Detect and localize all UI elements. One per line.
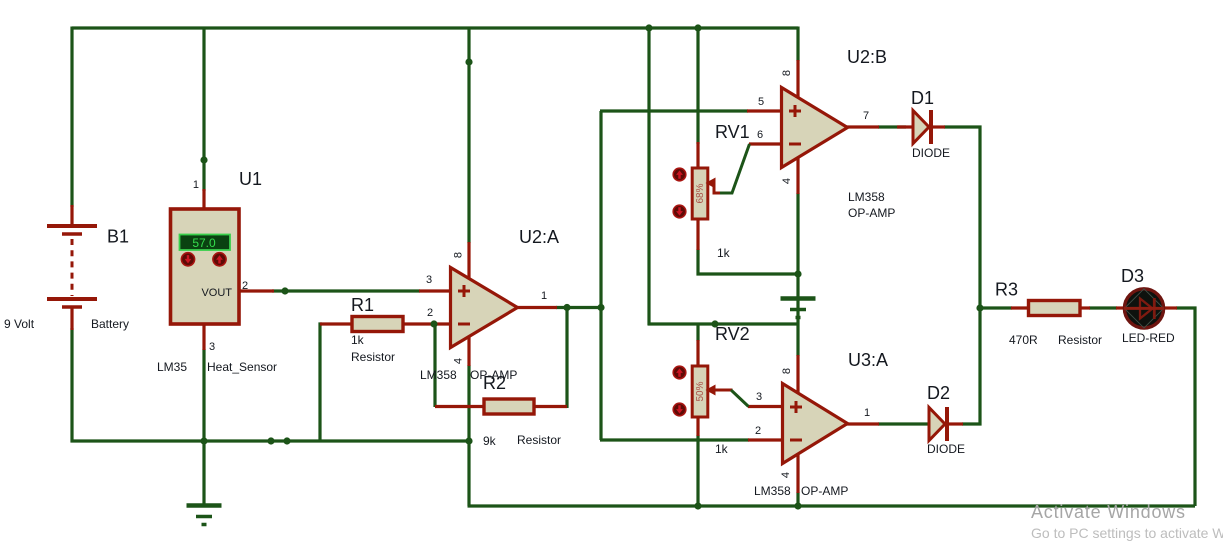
U1 button down — [181, 253, 194, 266]
R3 right lead — [1080, 306, 1090, 309]
wire RV1 top net — [696, 27, 699, 145]
svg-text:4: 4 — [453, 358, 465, 364]
wire R3 input net — [980, 306, 1012, 309]
junction node U2:A pin8 wire — [465, 58, 472, 65]
op-amp U2:A — [451, 268, 518, 348]
U3:A pin2 stub — [748, 438, 783, 441]
svg-text:Resistor: Resistor — [1058, 333, 1102, 347]
svg-text:OP-AMP: OP-AMP — [801, 484, 848, 498]
svg-text:1: 1 — [864, 407, 870, 419]
wire R2 right vertical — [565, 306, 568, 408]
label D3 — [1121, 266, 1144, 286]
value DIODE D1 — [912, 146, 950, 160]
wire R3 to LED net — [1089, 306, 1117, 309]
pin 5 U2:B — [758, 96, 764, 108]
svg-text:57.0: 57.0 — [192, 236, 216, 250]
RV2 top pin — [696, 340, 699, 367]
svg-text:R1: R1 — [351, 295, 374, 315]
RV2 down button — [673, 403, 686, 416]
wire U2:B output net — [878, 125, 906, 128]
wire U2:A pin8 net — [467, 28, 470, 243]
wire VOUT net to U2:A pin3 — [272, 289, 420, 292]
pin 7 U2:B — [863, 110, 869, 122]
svg-text:8: 8 — [453, 252, 465, 258]
resistor R3 body — [1029, 301, 1081, 316]
wire left battery vertical top — [70, 27, 73, 208]
svg-text:U2:B: U2:B — [847, 47, 887, 67]
D1 anode lead — [897, 125, 914, 128]
pin 4 U2:B — [781, 178, 793, 184]
junction node bottom rail b — [283, 437, 290, 444]
svg-text:D2: D2 — [927, 383, 950, 403]
svg-text:RV2: RV2 — [715, 324, 750, 344]
junction node output mid vertical — [597, 304, 604, 311]
wire bottom rail right — [468, 504, 1196, 507]
svg-text:R3: R3 — [995, 280, 1018, 300]
RV2 up button — [673, 366, 686, 379]
wire ground G1 stem — [202, 441, 205, 505]
svg-text:Activate Windows: Activate Windows — [1031, 502, 1186, 522]
pin 8 U2:B — [781, 70, 793, 76]
junction node y324 rail — [711, 320, 718, 327]
wire ground G2 column — [796, 274, 799, 356]
D2 cathode lead — [949, 422, 963, 425]
svg-text:Resistor: Resistor — [351, 350, 395, 364]
wire U2:B pin5 net — [600, 109, 748, 112]
svg-text:U3:A: U3:A — [848, 350, 888, 370]
value LM358 U3:A — [754, 484, 791, 498]
wire U1 pin1 net — [202, 28, 205, 191]
value 1k R1 — [351, 333, 365, 347]
pin 3 U3:A — [756, 391, 762, 403]
junction node R1 feedback tap — [430, 320, 437, 327]
pin 2 U3:A — [755, 425, 761, 437]
wire R2 left vertical — [433, 323, 436, 408]
svg-text:470R: 470R — [1009, 333, 1038, 347]
junction node top rail x649 — [645, 24, 652, 31]
LED D3 — [1124, 289, 1164, 328]
wire RV1 bottom net — [698, 249, 798, 274]
U2:A output stub — [516, 306, 557, 309]
value 1k RV1 — [717, 246, 731, 260]
pin 4 U3:A — [780, 472, 792, 478]
wire U2:A output net — [556, 306, 602, 309]
label B1 — [107, 227, 129, 247]
value Battery — [91, 317, 129, 331]
wire D1 cathode net — [944, 127, 980, 424]
battery B1 — [47, 205, 97, 330]
label RV1 — [715, 122, 750, 142]
op-amp U3:A — [783, 384, 848, 464]
label U2:A — [519, 227, 559, 247]
junction node ground G2 tap — [794, 270, 801, 277]
svg-text:1: 1 — [541, 290, 547, 302]
wire y324 rail — [648, 322, 798, 325]
value LED-RED — [1122, 331, 1175, 345]
label U3:A — [848, 350, 888, 370]
label U2:B — [847, 47, 887, 67]
wire U1 pin3 net — [202, 349, 205, 442]
pin 8 U3:A — [781, 368, 793, 374]
U2:B output stub — [846, 125, 879, 128]
junction node ground G1 tap — [200, 437, 207, 444]
svg-text:2: 2 — [755, 425, 761, 437]
label RV2 — [715, 324, 750, 344]
svg-text:DIODE: DIODE — [912, 146, 950, 160]
label R2 — [483, 373, 506, 393]
svg-text:Go to PC settings to activate: Go to PC settings to activate Windows — [1031, 525, 1223, 541]
wire U3:A output net — [878, 422, 930, 425]
value Resistor R1 — [351, 350, 395, 364]
junction node bottom rail RV2 — [694, 502, 701, 509]
U2:B pin4 stub — [796, 157, 799, 194]
value Resistor R3 — [1058, 333, 1102, 347]
RV1 down button — [673, 205, 686, 218]
resistor R2 body — [484, 399, 534, 414]
svg-text:1k: 1k — [715, 442, 729, 456]
U2:A pin3 stub — [419, 289, 451, 292]
wire middle vertical net — [599, 111, 602, 440]
svg-text:7: 7 — [863, 110, 869, 122]
value 1k RV2 — [715, 442, 729, 456]
junction node U2:A pin4 tap — [465, 437, 472, 444]
U1 button up — [213, 253, 226, 266]
svg-text:68%: 68% — [695, 183, 706, 203]
pin 2 U1 — [242, 280, 248, 292]
R3 left lead — [1011, 306, 1029, 309]
potentiometer RV2 body — [692, 366, 708, 417]
svg-text:3: 3 — [756, 391, 762, 403]
RV1 top pin — [696, 142, 699, 170]
value LM35 — [157, 360, 187, 374]
value OP-AMP U2:A — [470, 368, 517, 382]
pin 8 U2:A — [453, 252, 465, 258]
value 9k R2 — [483, 434, 497, 448]
LED cathode lead — [1163, 306, 1177, 309]
wire bottom rail left — [71, 439, 471, 442]
wire x649 vertical net — [647, 27, 650, 326]
diode D1 — [913, 110, 931, 144]
value OP-AMP U2:B — [848, 206, 895, 220]
value 470R — [1009, 333, 1038, 347]
R2 left lead — [435, 405, 484, 408]
U2:A pin8 stub — [467, 242, 470, 280]
resistor R1 body — [352, 317, 403, 332]
svg-text:DIODE: DIODE — [927, 442, 965, 456]
svg-text:LM35: LM35 — [157, 360, 187, 374]
U2:A pin2 stub / R1 right lead — [401, 322, 451, 325]
U1 pin2 stub — [238, 289, 274, 292]
svg-text:1k: 1k — [717, 246, 731, 260]
svg-text:2: 2 — [242, 280, 248, 292]
diode D2 — [929, 407, 947, 441]
RV2 wiper — [706, 385, 733, 396]
label R3 — [995, 280, 1018, 300]
U1 pin1 stub — [202, 189, 205, 211]
wire left battery vertical bottom — [70, 328, 73, 443]
svg-text:RV1: RV1 — [715, 122, 750, 142]
U3:A pin4 stub — [796, 453, 799, 493]
R2 right lead — [534, 405, 567, 408]
U3:A pin8 stub — [796, 355, 799, 394]
junction node VOUT — [281, 287, 288, 294]
pin 1 U3:A — [864, 407, 870, 419]
U3:A pin3 stub — [748, 405, 783, 408]
junction node U1 pin1 wire — [200, 156, 207, 163]
svg-text:1k: 1k — [351, 333, 365, 347]
ground G1 — [187, 506, 222, 525]
junction node bottom rail a — [267, 437, 274, 444]
label U1 — [239, 169, 262, 189]
U1 pin3 stub — [202, 323, 205, 350]
value OP-AMP U3:A — [801, 484, 848, 498]
U3:A output stub — [846, 422, 879, 425]
pin 6 U2:B — [757, 129, 763, 141]
U2:B pin6 stub — [749, 142, 782, 145]
wire RV2 top net — [696, 324, 699, 341]
wire top power rail — [72, 26, 798, 29]
svg-text:6: 6 — [757, 129, 763, 141]
svg-text:LM358: LM358 — [754, 484, 791, 498]
pin 1 U1 — [193, 179, 199, 191]
wire LED cathode net — [1176, 308, 1195, 506]
U2:B pin8 stub — [796, 60, 799, 99]
label D2 — [927, 383, 950, 403]
label R1 — [351, 295, 374, 315]
svg-text:OP-AMP: OP-AMP — [470, 368, 517, 382]
wire U2:A pin4 net — [467, 365, 470, 506]
svg-text:5: 5 — [758, 96, 764, 108]
svg-text:Heat_Sensor: Heat_Sensor — [207, 360, 277, 374]
U2:B pin5 stub — [747, 109, 782, 112]
pin 1 U2:A — [541, 290, 547, 302]
svg-text:4: 4 — [780, 472, 792, 478]
pin 2 U2:A — [427, 307, 433, 319]
svg-text:8: 8 — [781, 368, 793, 374]
potentiometer RV1 body — [692, 168, 708, 219]
svg-text:9 Volt: 9 Volt — [4, 317, 35, 331]
RV1 wiper — [706, 178, 722, 194]
R1 left lead — [320, 322, 353, 325]
op-amp U2:B — [782, 88, 848, 168]
pin 3 U2:A — [426, 274, 432, 286]
svg-text:VOUT: VOUT — [201, 287, 232, 299]
svg-text:U1: U1 — [239, 169, 262, 189]
svg-text:1: 1 — [193, 179, 199, 191]
junction node top rail x698 — [694, 24, 701, 31]
value Resistor R2 — [517, 433, 561, 447]
wire U2:B pin8 net — [796, 27, 799, 62]
junction node R2 output tap — [563, 304, 570, 311]
svg-text:4: 4 — [781, 178, 793, 184]
svg-text:D3: D3 — [1121, 266, 1144, 286]
junction node R3 tap — [976, 304, 983, 311]
value DIODE D2 — [927, 442, 965, 456]
svg-text:LED-RED: LED-RED — [1122, 331, 1175, 345]
ground G2 — [781, 299, 816, 318]
svg-text:B1: B1 — [107, 227, 129, 247]
U2:A pin4 stub — [467, 335, 470, 366]
D1 cathode lead — [931, 125, 945, 128]
svg-text:OP-AMP: OP-AMP — [848, 206, 895, 220]
value Heat_Sensor — [207, 360, 277, 374]
wire U3:A pin4 net — [796, 492, 799, 508]
watermark Go to PC settings — [1031, 525, 1223, 541]
svg-text:2: 2 — [427, 307, 433, 319]
wire RV2 bottom net — [696, 435, 699, 507]
pin 3 U1 — [209, 341, 215, 353]
svg-text:D1: D1 — [911, 88, 934, 108]
junction node bottom rail U3:A pin4 — [794, 502, 801, 509]
label D1 — [911, 88, 934, 108]
svg-text:8: 8 — [781, 70, 793, 76]
RV1 up button — [673, 168, 686, 181]
wire RV1 wiper to pin6 — [720, 144, 750, 193]
pin 4 U2:A — [453, 358, 465, 364]
value LM358 U2:B — [848, 190, 885, 204]
wire U3:A pin2 net — [600, 438, 749, 441]
watermark Activate Windows — [1031, 502, 1186, 522]
svg-text:9k: 9k — [483, 434, 497, 448]
svg-text:3: 3 — [209, 341, 215, 353]
svg-text:LM358: LM358 — [420, 368, 457, 382]
RV2 bottom pin — [696, 416, 699, 436]
wire R1 left loop — [320, 324, 322, 441]
svg-text:LM358: LM358 — [848, 190, 885, 204]
value LM358 U2:A — [420, 368, 457, 382]
svg-text:50%: 50% — [695, 381, 706, 401]
wire RV2 wiper to pin3 — [731, 390, 749, 407]
U1 VOUT pin name — [201, 287, 232, 299]
sensor U1 body — [171, 209, 240, 324]
RV1 bottom pin — [696, 218, 699, 250]
svg-text:U2:A: U2:A — [519, 227, 559, 247]
wire U2:B pin4 net — [796, 193, 799, 275]
U1 display — [180, 235, 231, 251]
svg-text:3: 3 — [426, 274, 432, 286]
LED anode lead — [1116, 306, 1126, 309]
svg-text:Battery: Battery — [91, 317, 129, 331]
svg-text:Resistor: Resistor — [517, 433, 561, 447]
value 9 Volt — [4, 317, 35, 331]
